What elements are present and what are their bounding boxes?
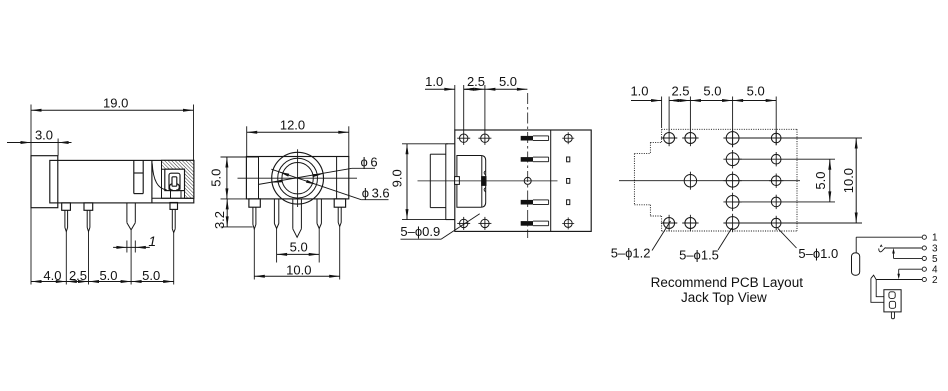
- dimension 2.5: [66, 281, 88, 283]
- schematic switch block detail upper: [889, 292, 895, 299]
- front view: right step line: [336, 157, 338, 199]
- schematic switch block detail lower: [889, 301, 895, 308]
- pcb hole D row 3 phi1.0: [771, 176, 781, 186]
- svg-text:4.0: 4.0: [43, 268, 61, 283]
- pcb hole B bottom phi1.2: [685, 218, 696, 229]
- label 5-phi0.9 underline: [401, 238, 442, 240]
- side view: contact finger left: [169, 184, 172, 190]
- pcb dimension 2.5: [669, 100, 690, 102]
- rear dimension 5.0: [485, 88, 528, 90]
- front bottom extension lines: [253, 229, 255, 280]
- pcb hole C row 5 phi1.5: [726, 217, 739, 230]
- svg-text:1.0: 1.0: [425, 74, 443, 89]
- schematic sleeve contact: [852, 253, 860, 275]
- schematic terminal 2: [922, 277, 926, 281]
- front dimension 10.0: [254, 275, 339, 277]
- svg-text:10.0: 10.0: [286, 263, 311, 278]
- front view: body outline: [246, 157, 348, 199]
- rear view terminal lug row 2: [521, 157, 533, 162]
- pcb centreline horizontal: [619, 180, 800, 182]
- dimension 12.0 extension lines: [246, 126, 248, 156]
- svg-text:1: 1: [148, 233, 156, 249]
- svg-text:10.0: 10.0: [841, 168, 856, 193]
- dimension 19.0: [31, 109, 194, 111]
- svg-text:5.0: 5.0: [209, 169, 224, 187]
- svg-text:3.2: 3.2: [212, 211, 227, 229]
- schematic terminal 4: [922, 267, 926, 271]
- svg-text:5: 5: [932, 254, 938, 265]
- front view dimension 5.0 (height): [226, 157, 228, 199]
- front view pin L: [252, 207, 254, 224]
- pcb hole C row 1 phi1.5: [726, 132, 739, 145]
- pcb row lines to dimensions: [733, 137, 862, 139]
- side view pin 4: [171, 209, 173, 229]
- front view pin 2: [273, 199, 275, 224]
- dimension 3.0 extension line: [57, 139, 59, 156]
- dimension 5.0 right: [131, 281, 174, 283]
- svg-text:2.5: 2.5: [69, 268, 87, 283]
- svg-text:3.0: 3.0: [35, 128, 53, 143]
- rear view pilot hole top: [564, 134, 572, 142]
- dimension 9.0 extension lines: [402, 143, 448, 145]
- pcb top dim extension lines: [661, 97, 663, 129]
- rear view terminal lug row 4: [521, 200, 533, 205]
- rear view: notch upper: [484, 171, 486, 175]
- svg-text:ϕ 6: ϕ 6: [361, 155, 378, 170]
- pcb dimension 10.0 vertical: [855, 138, 857, 223]
- rear view: bushing step: [445, 144, 447, 220]
- rear view pilot hole bottom: [564, 219, 572, 227]
- dimension 1 (pin width): [113, 246, 150, 248]
- svg-text:5.0: 5.0: [813, 172, 828, 190]
- side view: hatched insulator area: [162, 160, 194, 198]
- rear view mount hole bottom-left: [460, 219, 468, 227]
- front view: horizontal centreline: [238, 177, 358, 179]
- schematic tip contact strip: [876, 280, 884, 297]
- svg-text:3: 3: [932, 244, 938, 255]
- front view pin R shoulder: [334, 199, 345, 207]
- dimension 4.0: [31, 281, 66, 283]
- pcb hole B centre phi1.2: [684, 175, 696, 187]
- pcb hole D row 4 phi1.0: [771, 197, 781, 207]
- front view: inner circle phi3.6: [282, 163, 313, 194]
- svg-text:5–ϕ0.9: 5–ϕ0.9: [400, 224, 440, 239]
- pcb dimension 5.0 a: [690, 100, 732, 102]
- side view: insulator block outline: [162, 160, 194, 198]
- side view: mounting flange plate: [31, 156, 58, 208]
- svg-text:Jack Top View: Jack Top View: [681, 290, 767, 305]
- label 5-phi1.0 leader: [778, 228, 797, 248]
- rear dimension 2.5: [464, 88, 485, 90]
- schematic terminal 5: [922, 256, 926, 260]
- side view: base plate line: [152, 197, 194, 199]
- svg-text:1: 1: [932, 233, 938, 244]
- svg-text:5–ϕ1.5: 5–ϕ1.5: [679, 247, 719, 262]
- front view: middle circle: [278, 158, 318, 198]
- side view: contact finger right: [176, 184, 179, 190]
- svg-text:5–ϕ1.2: 5–ϕ1.2: [611, 246, 651, 261]
- rear dimension 1.0: [425, 88, 455, 90]
- svg-text:19.0: 19.0: [103, 96, 128, 111]
- pcb dimension 1.0: [631, 100, 662, 102]
- svg-text:5.0: 5.0: [499, 74, 517, 89]
- leader line phi6: [258, 168, 352, 184]
- svg-text:Recommend PCB Layout: Recommend PCB Layout: [651, 275, 804, 290]
- rear view: body outline: [455, 130, 591, 231]
- side view pin 4 shoulder: [170, 203, 178, 210]
- front view: vertical centreline: [297, 149, 299, 207]
- svg-text:5.0: 5.0: [747, 84, 765, 99]
- label 5-phi1.2 leader: [652, 221, 671, 251]
- dimension 3.0: [7, 142, 58, 144]
- rear view: notch lower: [484, 188, 486, 192]
- label 5-phi0.9 leader: [441, 214, 480, 239]
- rear top dim extension lines: [454, 85, 456, 130]
- rear view mount hole top-left: [460, 134, 468, 142]
- schematic wire pin3: [885, 247, 922, 249]
- rear view mount hole bottom-right: [481, 219, 489, 227]
- svg-text:5.0: 5.0: [703, 84, 721, 99]
- side view pin 1: [64, 210, 66, 227]
- schematic wire pin1: [856, 236, 922, 238]
- rear view vertical centreline: [527, 93, 529, 238]
- front view dim 5.0 extension lines: [221, 156, 259, 158]
- front dimension 5.0 (pin span): [277, 253, 320, 255]
- rear view: centre contact (black): [482, 177, 486, 186]
- leader line phi3.6: [271, 169, 361, 200]
- rear view slot row2: [567, 157, 570, 162]
- schematic wire pin5: [894, 257, 923, 259]
- pcb hole D row 5 phi1.0: [771, 218, 781, 228]
- pcb hole C row 4 phi1.5: [726, 196, 739, 209]
- dimension 19.0 extension lines: [30, 105, 32, 156]
- side view pin 2 shoulder: [84, 203, 93, 210]
- rear view mount hole top-right: [481, 134, 489, 142]
- rear view: partition line: [550, 130, 552, 231]
- side view: main body outline: [50, 160, 194, 203]
- rear view: inner sleeve double wall: [481, 156, 483, 207]
- side view pin 1 shoulder: [62, 203, 71, 210]
- svg-text:ϕ 3.6: ϕ 3.6: [362, 185, 390, 200]
- side view: contact housing: [169, 173, 180, 190]
- front view pin 4: [316, 199, 318, 224]
- pcb hole A bottom phi1.2: [664, 218, 675, 229]
- rear view: inner sleeve housing: [457, 156, 486, 208]
- rear view: bushing barrel: [429, 154, 431, 207]
- pcb dimension 5.0 vertical: [829, 159, 831, 202]
- side view: bottom cell divider right: [180, 191, 182, 199]
- side view: internal slot: [133, 160, 135, 193]
- rear view slot row3: [567, 179, 570, 184]
- rear view terminal lug row 5: [521, 221, 533, 226]
- dimension 9.0: [406, 144, 408, 220]
- front view pin R: [337, 207, 339, 222]
- front view pin L shoulder: [249, 199, 260, 207]
- side view pin 3 (wide centre pin): [126, 203, 128, 223]
- front view: left step line: [258, 157, 260, 199]
- front view dimension 3.2: [226, 199, 228, 227]
- side view: spring wire curve: [152, 163, 166, 189]
- pcb hole C row 2 phi1.5: [726, 153, 739, 166]
- svg-text:9.0: 9.0: [390, 169, 405, 187]
- bottom extension lines: [30, 208, 32, 285]
- schematic terminal 3: [922, 246, 926, 250]
- svg-text:5.0: 5.0: [290, 240, 308, 255]
- schematic terminal 1: [922, 235, 926, 239]
- rear view slot row4: [567, 200, 570, 205]
- pcb hole B top phi1.2: [685, 133, 696, 144]
- rear view centre hole: [524, 177, 531, 184]
- svg-text:5.0: 5.0: [99, 268, 117, 283]
- svg-text:2.5: 2.5: [671, 84, 689, 99]
- side view: bottom cell divider left: [170, 191, 172, 199]
- front view dim 3.2 extension line: [221, 226, 253, 228]
- schematic wire pin4: [899, 268, 923, 270]
- front view: bushing outer circle phi6: [272, 152, 324, 204]
- pcb hole D row 1 phi1.0: [771, 133, 781, 143]
- pcb outline dashed: [662, 128, 797, 130]
- front view centre pin: [292, 199, 294, 229]
- dimension 5.0: [89, 281, 132, 283]
- pcb hole A top phi1.2: [664, 133, 675, 144]
- side view pin 2: [86, 210, 88, 227]
- schematic switch contact checkmark: [879, 247, 886, 251]
- schematic switch body block: [884, 290, 901, 312]
- svg-text:12.0: 12.0: [280, 118, 305, 133]
- rear view: left tab: [455, 177, 460, 185]
- pcb hole D row 2 phi1.0: [771, 154, 781, 164]
- svg-text:2: 2: [932, 275, 938, 286]
- schematic wire pin2: [876, 279, 922, 281]
- pcb dimension 5.0 b: [733, 100, 777, 102]
- label 5-phi1.5 leader: [718, 228, 732, 250]
- svg-text:5.0: 5.0: [142, 268, 160, 283]
- schematic switch block pin: [891, 312, 894, 319]
- svg-text:5–ϕ1.0: 5–ϕ1.0: [798, 246, 838, 261]
- svg-text:1.0: 1.0: [630, 84, 648, 99]
- dimension 12.0: [247, 131, 349, 133]
- side view: contact cavity box: [165, 169, 185, 190]
- rear view horizontal centreline: [418, 180, 558, 182]
- side view: partition wall: [151, 160, 153, 203]
- rear view terminal lug row 1: [521, 136, 533, 141]
- side view: contact pin inner: [172, 177, 177, 186]
- pcb hole C row 3 phi1.5: [726, 174, 739, 187]
- svg-text:2.5: 2.5: [467, 74, 485, 89]
